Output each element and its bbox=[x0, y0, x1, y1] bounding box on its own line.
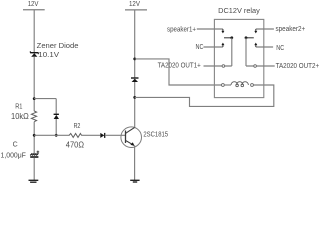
svg-text:Zener Diode: Zener Diode bbox=[37, 41, 79, 50]
svg-text:NC: NC bbox=[276, 45, 284, 52]
resistor R1 zigzag bbox=[31, 111, 36, 122]
diode D3 flyback symbol bbox=[131, 78, 139, 82]
ground left bbox=[29, 180, 39, 182]
contact K2 fixed NC terminal bbox=[254, 43, 257, 47]
capacitor C top plate hatched bbox=[30, 153, 38, 155]
capacitor C plus mark bbox=[37, 151, 40, 154]
wire speaker1+ stub bbox=[197, 28, 223, 30]
wire R2 to diode D2 bbox=[81, 134, 100, 136]
zener diode ZD label bbox=[37, 41, 79, 59]
contact K1 movable blade bbox=[224, 36, 233, 66]
svg-text:DC12V relay: DC12V relay bbox=[218, 8, 260, 15]
zener diode ZD symbol bbox=[30, 51, 38, 57]
svg-text:1,000μF: 1,000μF bbox=[1, 151, 27, 160]
resistor R2 label bbox=[66, 123, 84, 149]
wire OUT2 stub bbox=[246, 65, 275, 67]
wire emitter to ground bbox=[134, 146, 136, 180]
svg-text:speaker1+: speaker1+ bbox=[167, 27, 196, 34]
wire branch to diode D1 bbox=[34, 98, 56, 100]
contact K1 fixed speaker terminal bbox=[221, 29, 224, 33]
svg-text:12V: 12V bbox=[129, 1, 140, 8]
resistor R2 zigzag bbox=[69, 134, 82, 138]
svg-text:2SC1815: 2SC1815 bbox=[143, 132, 168, 139]
wire middle column top bbox=[134, 10, 136, 78]
contact K2 movable blade bbox=[245, 36, 254, 66]
node junction E dot bbox=[133, 96, 136, 99]
resistor R1 label bbox=[11, 103, 29, 121]
svg-text:R2: R2 bbox=[74, 123, 81, 130]
contact K2 fixed speaker terminal bbox=[254, 29, 257, 33]
svg-text:12V: 12V bbox=[28, 1, 39, 8]
node 12V middle rail bar bbox=[125, 9, 147, 11]
svg-text:R1: R1 bbox=[15, 103, 22, 110]
svg-text:470Ω: 470Ω bbox=[66, 140, 84, 149]
svg-text:10kΩ: 10kΩ bbox=[11, 112, 29, 121]
capacitor C label bbox=[1, 142, 27, 160]
svg-text:NC: NC bbox=[196, 44, 204, 51]
svg-text:C: C bbox=[13, 142, 18, 149]
wire coil left lead bbox=[224, 84, 231, 86]
svg-text:TA2020 OUT1+: TA2020 OUT1+ bbox=[158, 62, 201, 69]
wire left column mid bbox=[33, 57, 35, 111]
wire diode branch vertical bottom bbox=[55, 119, 57, 135]
wire diode branch vertical top bbox=[55, 99, 57, 114]
svg-text:10.1V: 10.1V bbox=[38, 50, 59, 59]
relay coil winding bbox=[231, 82, 248, 87]
node 12V left rail bar bbox=[23, 9, 45, 11]
wire left column below R1 bbox=[33, 122, 35, 154]
diode D2 symbol bbox=[100, 133, 104, 138]
transistor Q1 emitter lead bbox=[126, 140, 135, 145]
wire cap to ground bbox=[33, 158, 35, 180]
relay coil left terminal circle bbox=[222, 84, 225, 87]
contact K2 common terminal circle bbox=[254, 65, 257, 68]
ground middle bbox=[130, 180, 139, 182]
wire OUT1 stub bbox=[204, 65, 232, 67]
contact K1 fixed NC terminal bbox=[221, 43, 224, 47]
node junction D dot bbox=[133, 58, 136, 61]
wire diode to base bbox=[105, 134, 126, 136]
wire NC left stub bbox=[204, 46, 223, 48]
wire base rail bbox=[34, 134, 69, 136]
wire NC right stub bbox=[256, 46, 273, 48]
svg-text:speaker2+: speaker2+ bbox=[276, 26, 306, 33]
contact K1 common terminal circle bbox=[222, 65, 225, 68]
relay coil right terminal circle bbox=[251, 84, 254, 87]
wire coil return path bbox=[135, 85, 274, 106]
wire left column top bbox=[33, 10, 35, 53]
node junction A dot bbox=[33, 97, 36, 100]
node junction C dot bbox=[55, 134, 58, 137]
wire middle column below diode bbox=[134, 82, 136, 127]
capacitor C bottom plate bbox=[30, 156, 38, 158]
relay box bbox=[214, 19, 263, 97]
transistor Q1 circle bbox=[121, 127, 142, 148]
diode D1 symbol bbox=[54, 114, 59, 119]
wire coil feed top path bbox=[135, 59, 222, 85]
svg-text:TA2020 OUT2+: TA2020 OUT2+ bbox=[276, 63, 320, 70]
wire speaker2+ stub bbox=[256, 28, 274, 30]
transistor Q1 base bar bbox=[125, 131, 127, 144]
transistor Q1 collector lead bbox=[126, 127, 135, 133]
node junction B dot bbox=[33, 134, 36, 137]
transistor Q1 emitter arrowhead bbox=[130, 142, 134, 146]
